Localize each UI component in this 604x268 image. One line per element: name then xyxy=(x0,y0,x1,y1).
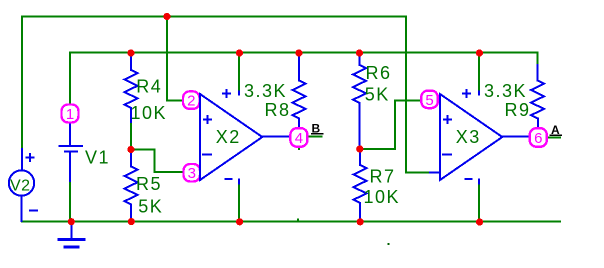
junction dot R6/R7/pin5 xyxy=(356,145,363,152)
pin bubble 4 xyxy=(290,128,307,147)
wire top horizontal xyxy=(22,16,406,18)
wire top-right feedback vertical xyxy=(406,17,430,173)
junction dot ground rail R7 xyxy=(357,218,364,225)
svg-text:4: 4 xyxy=(295,130,303,147)
wire node to pin 3 xyxy=(131,149,184,172)
wire V1 column bottom xyxy=(69,181,71,222)
svg-text:5K: 5K xyxy=(365,85,390,105)
junction dot rail2 R4 xyxy=(127,49,134,56)
pin bubble 1 xyxy=(62,105,79,123)
junction dot top wire xyxy=(163,13,170,20)
op-amp X2 left edge redraw over bubbles xyxy=(199,94,201,180)
pin bubble 6 xyxy=(530,128,547,147)
junction dot R4/R5/pin3 xyxy=(127,146,134,153)
pin bubble 3 xyxy=(184,164,201,182)
op-amp X2 xyxy=(199,90,291,183)
resistor R4 xyxy=(125,54,138,123)
ground xyxy=(59,222,84,247)
svg-text:R4: R4 xyxy=(136,76,162,96)
resistor R5 xyxy=(125,150,138,222)
resistor R7 xyxy=(354,150,367,222)
resistor R9 xyxy=(531,65,544,129)
wire R6/R7 node to pin 5 xyxy=(360,100,423,149)
wire left vertical to V2 xyxy=(21,17,23,150)
svg-text:5K: 5K xyxy=(138,197,163,217)
wire node B stub xyxy=(308,136,322,138)
op-amp X3 xyxy=(430,90,530,183)
svg-text:V2: V2 xyxy=(10,177,31,194)
battery V1 xyxy=(60,123,82,182)
junction dot rail2 X3 power xyxy=(476,49,483,56)
junction dot rail2 R6 xyxy=(356,49,363,56)
wire X2 power vertical xyxy=(238,53,240,222)
svg-text:R8: R8 xyxy=(265,100,291,120)
wire node A stub xyxy=(548,136,561,138)
svg-text:10K: 10K xyxy=(364,187,401,207)
junction dot ground rail X3 power xyxy=(476,218,483,225)
pin bubble 2 xyxy=(183,91,200,109)
svg-text:5: 5 xyxy=(425,92,433,109)
svg-text:R6: R6 xyxy=(366,63,392,83)
svg-text:R7: R7 xyxy=(370,167,396,187)
stray mark near node B xyxy=(298,148,300,150)
junction dot rail2 X2 power xyxy=(236,49,243,56)
source V2 xyxy=(9,149,37,221)
svg-text:10K: 10K xyxy=(131,103,168,123)
junction dot ground rail R5 xyxy=(128,218,135,225)
stray dot bottom middle xyxy=(387,243,389,245)
svg-text:3.3K: 3.3K xyxy=(484,81,527,101)
wire to pin 2 xyxy=(167,17,182,101)
svg-text:3: 3 xyxy=(188,165,196,182)
wire bottom ground rail xyxy=(22,221,560,223)
junction dot ground rail V1 xyxy=(68,218,75,225)
svg-text:X3: X3 xyxy=(456,127,481,147)
svg-text:6: 6 xyxy=(534,130,542,147)
wire V1 column top xyxy=(69,53,71,106)
svg-text:X2: X2 xyxy=(216,127,241,147)
wire X3 power vertical xyxy=(478,53,480,222)
resistor R8 xyxy=(293,56,306,129)
wire rail to R9 xyxy=(537,53,539,66)
wire R4 bottom to node xyxy=(130,122,132,149)
pin bubble 5 xyxy=(421,91,438,109)
svg-text:1: 1 xyxy=(66,106,74,123)
svg-text:2: 2 xyxy=(187,93,195,110)
wire second rail xyxy=(70,52,538,54)
resistor R6 xyxy=(353,56,366,149)
svg-text:R9: R9 xyxy=(505,100,531,120)
junction dot rail2 R8 xyxy=(295,49,302,56)
svg-text:3.3K: 3.3K xyxy=(244,81,287,101)
stray mark above ground rail xyxy=(297,219,299,222)
svg-text:V1: V1 xyxy=(85,147,110,167)
svg-text:R5: R5 xyxy=(136,174,162,194)
junction dot ground rail X2 power xyxy=(236,218,243,225)
